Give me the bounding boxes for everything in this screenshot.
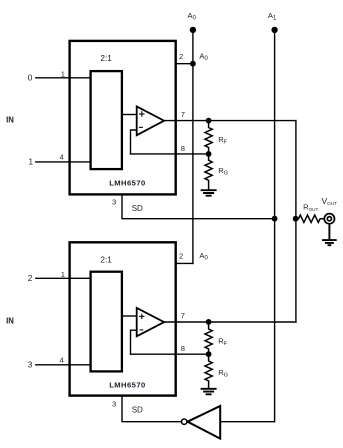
svg-text:SD: SD <box>132 406 143 415</box>
svg-text:3: 3 <box>112 197 116 206</box>
svg-text:4: 4 <box>60 355 64 364</box>
svg-text:IN: IN <box>6 317 14 326</box>
svg-text:1: 1 <box>29 158 34 167</box>
svg-text:2: 2 <box>28 274 33 283</box>
svg-text:IN: IN <box>6 116 14 125</box>
svg-text:0: 0 <box>28 73 33 82</box>
svg-text:LMH6570: LMH6570 <box>109 178 146 187</box>
svg-text:7: 7 <box>181 311 185 320</box>
svg-text:SD: SD <box>132 204 143 213</box>
svg-text:8: 8 <box>181 144 185 153</box>
svg-text:LMH6570: LMH6570 <box>109 380 146 389</box>
svg-text:2:1: 2:1 <box>100 255 112 264</box>
svg-text:4: 4 <box>60 153 64 162</box>
svg-text:3: 3 <box>112 399 116 408</box>
svg-text:3: 3 <box>28 360 33 369</box>
svg-text:7: 7 <box>181 110 185 119</box>
svg-text:8: 8 <box>181 344 185 353</box>
svg-text:1: 1 <box>61 270 65 279</box>
svg-text:2: 2 <box>179 52 183 61</box>
svg-text:1: 1 <box>61 70 65 79</box>
svg-text:2: 2 <box>179 252 183 261</box>
svg-text:2:1: 2:1 <box>100 54 112 63</box>
